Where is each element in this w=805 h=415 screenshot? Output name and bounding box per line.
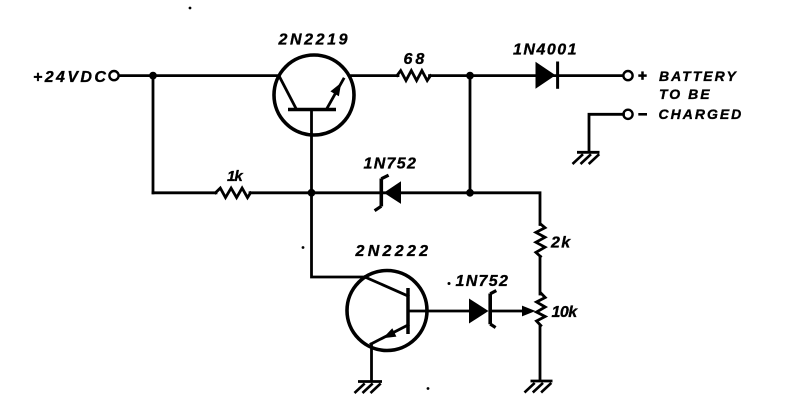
svg-text:2N2222: 2N2222 bbox=[355, 243, 432, 260]
transistor Q1 2N2219 bbox=[274, 55, 354, 135]
wire zener D3 to pot wiper arrow bbox=[492, 310, 524, 313]
plus sign bbox=[638, 71, 646, 79]
wire 68 resistor to output node and diode bbox=[430, 74, 624, 77]
terminal +24VDC input bbox=[109, 71, 118, 80]
svg-text:1k: 1k bbox=[227, 168, 243, 185]
terminal battery minus bbox=[623, 110, 632, 119]
svg-text:1N752: 1N752 bbox=[456, 273, 510, 290]
wire battery minus terminal to ground bbox=[589, 114, 624, 151]
wire Q2 emitter to ground bbox=[370, 344, 373, 381]
arrow pot wiper bbox=[522, 306, 536, 317]
stray dot left of 1N752 label bbox=[448, 282, 451, 285]
svg-text:BATTERY: BATTERY bbox=[659, 68, 738, 84]
junction dot at +24VDC rail bbox=[149, 72, 157, 80]
stray dot left of 2N2222 label bbox=[302, 246, 305, 249]
wire vertical from top rail down to 1k resistor row bbox=[152, 76, 155, 193]
zener D3 1N752 bbox=[469, 291, 496, 328]
svg-text:10k: 10k bbox=[552, 304, 579, 321]
wire top rail from input terminal to Q1 collector bbox=[120, 74, 279, 77]
svg-text:2k: 2k bbox=[550, 234, 572, 251]
minus sign bbox=[638, 113, 647, 116]
stray dot top bbox=[189, 7, 192, 10]
svg-text:1N4001: 1N4001 bbox=[513, 42, 578, 59]
resistor 1k bbox=[216, 188, 251, 198]
svg-text:CHARGED: CHARGED bbox=[659, 106, 744, 122]
transistor Q2 2N2222 bbox=[347, 271, 427, 351]
label BATTERY TO BE CHARGED bbox=[659, 68, 744, 122]
resistor 2k bbox=[536, 224, 545, 257]
svg-text:TO BE: TO BE bbox=[659, 86, 712, 102]
junction dot output node bbox=[466, 72, 474, 80]
resistor 68 bbox=[397, 71, 431, 81]
wire 1k to zener D2 row bbox=[250, 191, 470, 194]
wire vertical from output node down to zener row bbox=[469, 76, 472, 193]
stray dot near Q2 ground bbox=[427, 387, 430, 390]
svg-text:2N2219: 2N2219 bbox=[278, 32, 351, 49]
ground pot bottom bbox=[525, 381, 553, 393]
wire 1k row left segment bbox=[153, 191, 216, 194]
junction dot zener row right bbox=[466, 189, 474, 197]
svg-text:+24VDC: +24VDC bbox=[33, 69, 108, 86]
wire Q2 base to zener D3 bbox=[427, 310, 469, 313]
diode D1 1N4001 bbox=[536, 62, 558, 89]
wire Q1 base lead down to Q2 collector bbox=[312, 110, 366, 278]
wire 10k pot to ground bbox=[539, 326, 542, 381]
junction dot Q1 base node bbox=[308, 189, 316, 197]
terminal battery plus bbox=[623, 71, 632, 80]
zener D2 1N752 bbox=[375, 175, 401, 211]
wire Q1 emitter to 68 ohm resistor bbox=[349, 74, 398, 77]
wire 2k to 10k pot bbox=[539, 257, 542, 295]
svg-text:68: 68 bbox=[404, 51, 428, 68]
ground Q2 emitter bbox=[355, 382, 383, 394]
svg-text:1N752: 1N752 bbox=[364, 155, 418, 172]
ground battery return bbox=[573, 152, 600, 164]
wire zener row to 2k resistor chain bbox=[470, 193, 540, 225]
potentiometer 10k bbox=[537, 293, 546, 326]
